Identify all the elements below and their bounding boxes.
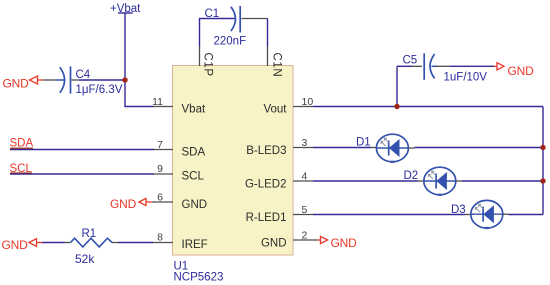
power symbol +Vbat (110, 3, 141, 15)
GND port C (R1) (2, 238, 43, 252)
svg-text:D3: D3 (451, 204, 466, 216)
svg-text:C1N: C1N (271, 53, 283, 78)
capacitor C1 (231, 6, 240, 33)
svg-text:R-LED1: R-LED1 (246, 212, 287, 224)
pin 6 stub (152, 201, 173, 203)
svg-text:2: 2 (302, 230, 308, 242)
pin 8 stub (153, 242, 173, 244)
svg-text:C1P: C1P (202, 53, 214, 77)
svg-text:GND: GND (3, 76, 30, 90)
LED D1 (376, 134, 408, 162)
GND port D (C5) (494, 63, 534, 78)
svg-text:D2: D2 (404, 170, 419, 182)
IC U1 body NCP5623 (173, 66, 294, 256)
GND port B (pin 6) (110, 197, 152, 211)
resistor R1 (71, 238, 113, 247)
svg-text:SCL: SCL (182, 171, 205, 183)
pin 7 stub (154, 149, 173, 151)
pin C1N stub (267, 46, 269, 66)
svg-text:5: 5 (302, 204, 308, 216)
svg-text:3: 3 (302, 137, 308, 149)
svg-text:D1: D1 (356, 137, 371, 149)
wire +Vbat vertical to pin 11 corner (125, 13, 153, 107)
wire D2 to rail (456, 180, 462, 182)
svg-text:C4: C4 (76, 69, 91, 81)
svg-text:8: 8 (157, 232, 163, 244)
junction dot (397,106.5) (394, 104, 399, 109)
GND port E (pin 2) (317, 236, 357, 250)
wire D1 to rail (408, 147, 414, 149)
svg-text:GND: GND (110, 197, 137, 211)
svg-text:IREF: IREF (182, 239, 208, 251)
pin 2 stub GND (293, 239, 317, 241)
svg-text:C5: C5 (403, 55, 418, 67)
svg-text:220nF: 220nF (214, 36, 247, 48)
svg-text:1uF/10V: 1uF/10V (444, 72, 488, 84)
svg-text:G-LED2: G-LED2 (245, 179, 287, 191)
svg-text:R1: R1 (82, 228, 97, 240)
wire pin3 to D1 (313, 147, 371, 149)
wire C5 to GND (436, 65, 450, 67)
pin 11 stub (153, 106, 173, 108)
svg-text:B-LED3: B-LED3 (246, 145, 286, 157)
pin 9 stub (154, 173, 173, 175)
LED D2 (424, 167, 456, 195)
svg-text:9: 9 (157, 163, 163, 175)
wire to C5 (397, 65, 413, 67)
capacitor C4 (56, 66, 79, 93)
svg-text:SDA: SDA (10, 137, 34, 149)
svg-text:4: 4 (302, 171, 308, 183)
wire pin4 to D2 (313, 180, 418, 182)
svg-text:GND: GND (182, 199, 208, 211)
wire R1 to pin 8 (112, 242, 119, 244)
wire pin5 to D3 (313, 214, 465, 216)
wire C4 to +Vbat junction (79, 79, 125, 81)
wire SDA to pin 7 (10, 149, 154, 151)
svg-text:GND: GND (508, 64, 535, 78)
pin 4 stub G-LED2 (293, 180, 313, 182)
pin 10 stub Vout (293, 106, 313, 108)
svg-text:GND: GND (261, 238, 287, 250)
wire D3 to rail (503, 213, 509, 215)
wire Vout rail (313, 106, 543, 108)
junction dot (543,181) (540, 178, 545, 183)
pin 3 stub B-LED3 (293, 147, 313, 149)
wire C5 branch vertical (396, 66, 398, 106)
svg-text:SDA: SDA (182, 147, 206, 159)
svg-text:GND: GND (331, 236, 358, 250)
wire C1P up and across (200, 19, 235, 47)
capacitor C5 (424, 53, 437, 80)
wire right rail vertical (542, 107, 544, 215)
wire GND to C4 (43, 79, 56, 81)
svg-text:6: 6 (157, 192, 163, 204)
GND port A (C4) (3, 76, 44, 90)
junction dot (543,147.5) (540, 145, 545, 150)
svg-text:52k: 52k (75, 252, 95, 266)
svg-text:NCP5623: NCP5623 (174, 272, 224, 284)
svg-text:Vout: Vout (263, 104, 287, 116)
pin 5 stub R-LED1 (293, 214, 313, 216)
wire C1 to C1N (242, 18, 268, 20)
junction dot (125,80) (122, 77, 127, 82)
svg-text:C1: C1 (205, 8, 220, 20)
svg-text:1μF/6.3V: 1μF/6.3V (76, 84, 123, 96)
svg-text:7: 7 (157, 139, 163, 151)
wire GND to R1 (42, 242, 65, 244)
wire SCL to pin 9 (10, 173, 154, 175)
svg-text:GND: GND (2, 238, 29, 252)
svg-text:11: 11 (152, 96, 163, 108)
pin C1P stub (199, 46, 201, 66)
LED D3 (471, 200, 503, 228)
svg-text:10: 10 (302, 96, 314, 108)
svg-text:Vbat: Vbat (182, 104, 206, 116)
